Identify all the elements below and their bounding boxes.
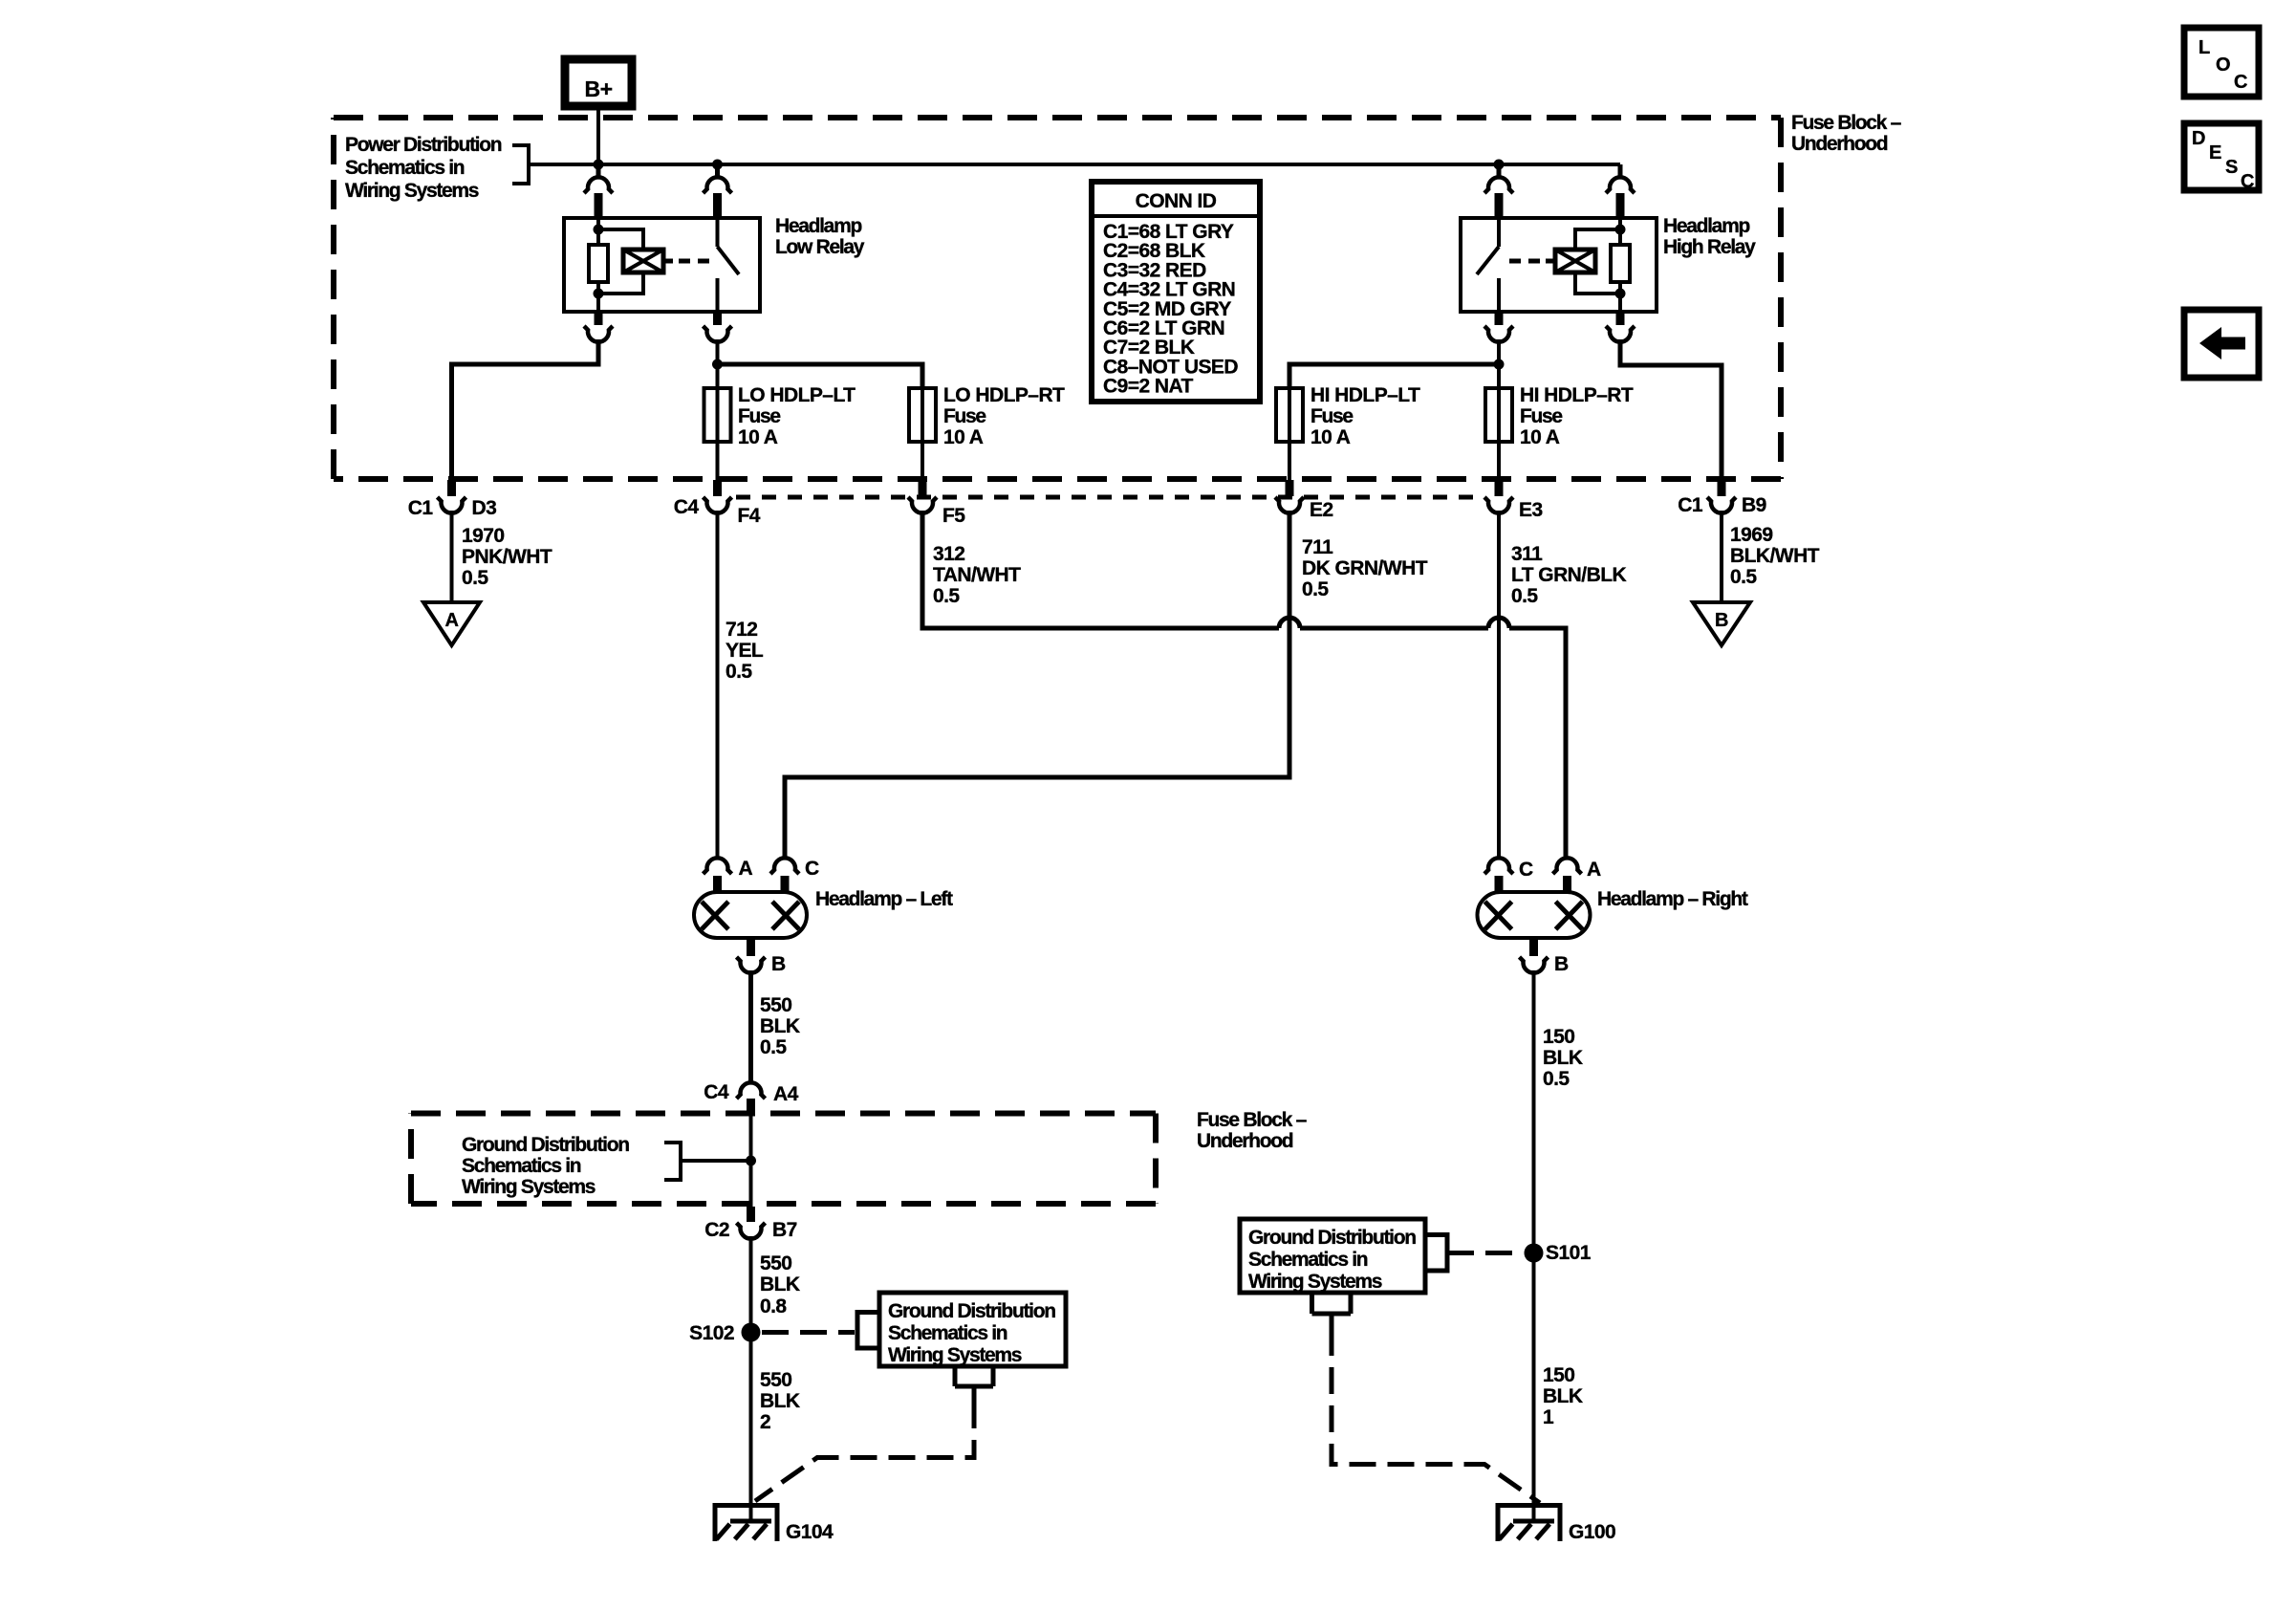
wire high-relay switch to fuse node (1497, 339, 1501, 388)
relay K-high: Headlamp High Relay box and internals (switch, coil) (1461, 218, 1657, 312)
wire 150 BLK 1 to G100 (1532, 1252, 1536, 1521)
svg-text:G104: G104 (786, 1521, 834, 1543)
svg-text:550: 550 (760, 1369, 791, 1391)
svg-text:C4: C4 (674, 496, 700, 518)
label wire 311 LT GRN/BLK 0.5 (1511, 543, 1626, 607)
svg-text:Schematics in: Schematics in (1248, 1249, 1368, 1271)
svg-text:D3: D3 (472, 497, 497, 519)
connector terminal high relay switch pin bottom (1484, 312, 1513, 342)
back-arrow icon (2184, 310, 2259, 378)
wire 1969 BLK/WHT to B (1720, 511, 1723, 602)
label Headlamp High Relay (1663, 215, 1756, 258)
svg-text:Underhood: Underhood (1197, 1130, 1293, 1152)
off-page triangle A (423, 602, 480, 645)
connector terminal low relay coil pin bottom (584, 312, 613, 342)
wire low-relay switch to fuse node (716, 339, 720, 388)
svg-text:150: 150 (1543, 1364, 1574, 1386)
svg-text:C: C (2234, 72, 2247, 93)
svg-text:LO HDLP–LT: LO HDLP–LT (738, 384, 856, 406)
connector C4/A4 into fuse block (704, 1081, 798, 1116)
ground G100 (1496, 1503, 1616, 1543)
wire low-relay coil to D3 drop (452, 339, 599, 480)
svg-text:0.5: 0.5 (462, 567, 488, 589)
node splice S102 (689, 1322, 760, 1344)
callout S102 ground distribution box (762, 1293, 1066, 1366)
lamp E-right: Headlamp - Right with pins C A B (1478, 858, 1602, 975)
svg-text:B9: B9 (1742, 494, 1766, 516)
connector C2/B7 out of fuse block (704, 1207, 797, 1241)
svg-text:Wiring Systems: Wiring Systems (462, 1176, 596, 1198)
svg-text:S101: S101 (1546, 1242, 1592, 1264)
fuse HI HDLP-LT 10A (1276, 388, 1303, 480)
label Headlamp - Left (815, 888, 953, 910)
connector terminal low relay switch pin bottom (704, 312, 732, 342)
svg-text:High Relay: High Relay (1663, 236, 1756, 258)
svg-text:Power Distribution: Power Distribution (345, 134, 502, 156)
connector F4 at fuse block (674, 480, 761, 527)
label wire 312 TAN/WHT 0.5 (933, 543, 1021, 607)
svg-text:Ground Distribution: Ground Distribution (888, 1300, 1055, 1322)
svg-text:A4: A4 (773, 1083, 799, 1105)
wire 711 DK GRN/WHT E2 to headlamp-left C (785, 511, 1289, 859)
svg-text:0.5: 0.5 (1730, 566, 1757, 588)
label LO HDLP-RT fuse (943, 384, 1065, 448)
label wire 550 BLK 0.5 (760, 994, 800, 1058)
dashed link S101 callout to G100 (1332, 1329, 1540, 1503)
label wire 1970 PNK/WHT 0.5 (462, 525, 552, 589)
svg-text:312: 312 (933, 543, 964, 565)
svg-text:LO HDLP–RT: LO HDLP–RT (943, 384, 1065, 406)
svg-text:Fuse: Fuse (1520, 405, 1562, 427)
node low fuse split (712, 359, 723, 370)
svg-text:BLK: BLK (1543, 1385, 1583, 1407)
svg-text:BLK: BLK (1543, 1047, 1583, 1069)
svg-text:10 A: 10 A (1520, 426, 1560, 448)
wire high-relay coil to B9 drop (1620, 339, 1722, 480)
svg-text:Fuse Block –: Fuse Block – (1791, 112, 1902, 134)
ground G104 (713, 1503, 834, 1543)
svg-text:B: B (771, 953, 786, 975)
svg-text:0.5: 0.5 (726, 661, 752, 683)
connector E3 at fuse block (1484, 480, 1543, 521)
connector terminal high relay coil pin bottom (1606, 312, 1635, 342)
svg-text:LT GRN/BLK: LT GRN/BLK (1511, 564, 1626, 586)
label Fuse Block - Underhood (2) (1197, 1109, 1308, 1152)
wire 1970 PNK/WHT to A (450, 511, 454, 602)
svg-text:C1: C1 (408, 497, 434, 519)
svg-text:S: S (2225, 157, 2238, 178)
svg-text:311: 311 (1511, 543, 1543, 565)
connector terminal high relay switch pin top (1484, 164, 1513, 219)
node bus-high-relay junction (1494, 160, 1505, 170)
callout S101 box bottom bracket (1312, 1293, 1352, 1331)
svg-text:C: C (1519, 859, 1533, 881)
callout Ground Distribution (in fuse block) (462, 1134, 751, 1198)
svg-text:E2: E2 (1310, 499, 1333, 521)
wire to HI HDLP-LT fuse (1289, 364, 1499, 388)
svg-text:PNK/WHT: PNK/WHT (462, 546, 552, 568)
svg-text:Schematics in: Schematics in (345, 157, 465, 179)
svg-text:CONN ID: CONN ID (1136, 190, 1217, 212)
svg-text:Headlamp: Headlamp (1663, 215, 1749, 237)
svg-text:Fuse Block –: Fuse Block – (1197, 1109, 1308, 1131)
LOC navigation icon (2184, 28, 2259, 97)
label HI HDLP-LT fuse (1310, 384, 1420, 448)
svg-text:F4: F4 (738, 505, 761, 527)
svg-text:YEL: YEL (726, 640, 764, 662)
label wire 150 BLK 1 (1543, 1364, 1583, 1428)
svg-text:0.5: 0.5 (933, 585, 960, 607)
svg-text:550: 550 (760, 1252, 791, 1274)
label Fuse Block - Underhood (top right) (1791, 112, 1902, 155)
svg-text:S102: S102 (689, 1322, 734, 1344)
svg-text:C2: C2 (704, 1219, 729, 1241)
svg-text:Ground Distribution: Ground Distribution (462, 1134, 629, 1156)
node bus-low-relay junction (712, 160, 723, 170)
wire power bus (529, 164, 1620, 179)
svg-text:DK GRN/WHT: DK GRN/WHT (1302, 557, 1428, 579)
svg-text:B: B (1554, 953, 1569, 975)
svg-text:A: A (445, 610, 459, 631)
svg-text:TAN/WHT: TAN/WHT (933, 564, 1021, 586)
svg-text:O: O (2216, 54, 2230, 76)
svg-text:0.8: 0.8 (760, 1295, 787, 1317)
label wire 550 BLK 0.8 (760, 1252, 800, 1317)
svg-text:150: 150 (1543, 1026, 1574, 1048)
wire B+ to bus (596, 106, 600, 164)
node high fuse split (1494, 359, 1505, 370)
fuse block underhood dashed outline (334, 118, 1781, 479)
B+ power terminal box (565, 59, 632, 106)
relay K-low: Headlamp Low Relay box and internals (coil, switch) (564, 218, 760, 312)
fuse LO HDLP-LT 10A (704, 388, 731, 480)
wire 312 TAN/WHT F5 to headlamp-right A (922, 511, 1566, 859)
svg-text:2: 2 (760, 1411, 770, 1433)
svg-text:C4: C4 (704, 1081, 729, 1103)
svg-text:E3: E3 (1519, 499, 1543, 521)
svg-text:BLK: BLK (760, 1390, 800, 1412)
callout S102 box bottom bracket (955, 1366, 993, 1402)
svg-text:10 A: 10 A (738, 426, 778, 448)
off-page triangle B (1693, 602, 1750, 645)
DESC navigation icon (2184, 123, 2259, 192)
label wire 1969 BLK/WHT 0.5 (1730, 524, 1820, 588)
label wire 550 BLK 2 (760, 1369, 800, 1433)
node splice S101 (1525, 1242, 1592, 1264)
svg-text:A: A (1587, 859, 1601, 881)
svg-text:Fuse: Fuse (738, 405, 780, 427)
connector row dotted line (736, 495, 1482, 500)
node bus-B+ junction (594, 160, 604, 170)
svg-text:Underhood: Underhood (1791, 133, 1888, 155)
svg-text:Wiring Systems: Wiring Systems (1248, 1271, 1382, 1293)
svg-text:Wiring Systems: Wiring Systems (888, 1344, 1022, 1366)
svg-text:711: 711 (1302, 536, 1333, 558)
wire 150 BLK 0.5 from headlamp-right B (1532, 970, 1536, 1252)
wire 311 LT GRN/BLK E3 to headlamp-right C (1497, 511, 1501, 859)
label wire 712 YEL 0.5 (726, 619, 764, 683)
svg-text:BLK: BLK (760, 1015, 800, 1037)
svg-text:B+: B+ (585, 76, 613, 101)
callout S101 ground distribution box (1240, 1219, 1522, 1293)
svg-text:10 A: 10 A (1310, 426, 1351, 448)
svg-text:Ground Distribution: Ground Distribution (1248, 1227, 1416, 1249)
svg-text:A: A (739, 858, 753, 880)
wire 550 BLK 2 to G104 (749, 1332, 753, 1521)
svg-text:C1: C1 (1678, 494, 1703, 516)
wire to LO HDLP-RT fuse (718, 364, 923, 388)
label wire 711 DK GRN/WHT 0.5 (1302, 536, 1428, 600)
svg-text:712: 712 (726, 619, 757, 641)
label wire 150 BLK 0.5 (1543, 1026, 1583, 1090)
svg-text:Schematics in: Schematics in (462, 1155, 581, 1177)
svg-text:0.5: 0.5 (1302, 578, 1329, 600)
svg-text:0.5: 0.5 (1543, 1068, 1570, 1090)
svg-text:F5: F5 (942, 505, 965, 527)
svg-text:1969: 1969 (1730, 524, 1773, 546)
fuse LO HDLP-RT 10A (909, 388, 936, 480)
svg-text:Schematics in: Schematics in (888, 1322, 1007, 1344)
label HI HDLP-RT fuse (1520, 384, 1634, 448)
svg-text:1: 1 (1543, 1406, 1554, 1428)
connector terminal low relay switch pin top (704, 164, 732, 219)
connector B9 at fuse block (1678, 480, 1766, 516)
svg-text:HI HDLP–RT: HI HDLP–RT (1520, 384, 1634, 406)
connector terminal low relay coil pin top (584, 164, 613, 219)
svg-text:C: C (805, 858, 819, 880)
CONN ID legend table (1092, 182, 1260, 402)
svg-text:10 A: 10 A (943, 426, 984, 448)
svg-text:D: D (2192, 128, 2205, 149)
svg-text:BLK: BLK (760, 1274, 800, 1295)
svg-text:B: B (1715, 610, 1728, 631)
connector E2 at fuse block (1275, 480, 1333, 521)
wire 712 YEL F4 to headlamp-left A (716, 511, 720, 859)
svg-text:HI HDLP–LT: HI HDLP–LT (1310, 384, 1420, 406)
svg-text:0.5: 0.5 (1511, 585, 1538, 607)
svg-text:Headlamp – Left: Headlamp – Left (815, 888, 953, 910)
svg-text:Fuse: Fuse (1310, 405, 1353, 427)
svg-text:L: L (2199, 37, 2210, 58)
wire 550 BLK 0.8 (749, 1236, 753, 1332)
label Headlamp Low Relay (775, 215, 865, 258)
label Headlamp - Right (1597, 888, 1748, 910)
lamp E-left: Headlamp - Left with pins A C B (694, 858, 819, 975)
label LO HDLP-LT fuse (738, 384, 856, 448)
svg-text:550: 550 (760, 994, 791, 1016)
svg-text:C: C (2241, 171, 2254, 192)
svg-text:Fuse: Fuse (943, 405, 986, 427)
svg-text:Headlamp: Headlamp (775, 215, 861, 237)
svg-text:B7: B7 (772, 1219, 797, 1241)
connector D3 at fuse block (408, 480, 497, 519)
svg-text:E: E (2209, 142, 2221, 163)
fuse block underhood 2 dashed outline (411, 1114, 1156, 1205)
connector F5 at fuse block (908, 480, 965, 527)
wire through fuse block 2 (746, 1116, 756, 1207)
callout Power Distribution Schematics in Wiring Systems (345, 134, 529, 202)
svg-text:Low Relay: Low Relay (775, 236, 865, 258)
dashed link S102 callout to G104 (755, 1402, 974, 1501)
svg-text:0.5: 0.5 (760, 1036, 787, 1058)
fuse HI HDLP-RT 10A (1485, 388, 1512, 480)
svg-text:Headlamp – Right: Headlamp – Right (1597, 888, 1748, 910)
svg-text:BLK/WHT: BLK/WHT (1730, 545, 1820, 567)
svg-text:G100: G100 (1569, 1521, 1615, 1543)
svg-text:C9=2 NAT: C9=2 NAT (1103, 376, 1194, 398)
wire 550 BLK 0.5 to fuse block C4/A4 (748, 970, 753, 1084)
connector terminal high relay coil pin top (1606, 164, 1635, 219)
svg-text:Wiring Systems: Wiring Systems (345, 180, 479, 202)
svg-text:1970: 1970 (462, 525, 505, 547)
